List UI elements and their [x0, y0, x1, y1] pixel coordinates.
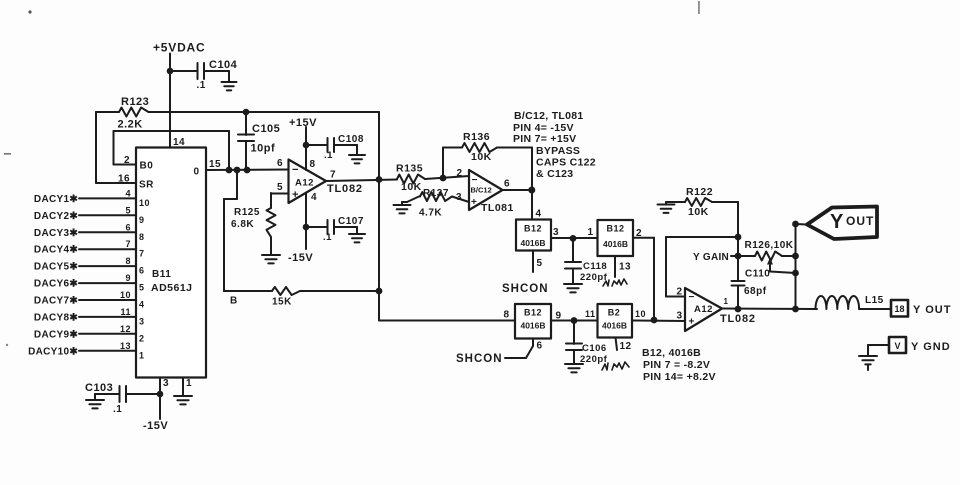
svg-text:Y: Y	[830, 211, 844, 233]
svg-text:4.7K: 4.7K	[419, 208, 442, 219]
svg-text:3: 3	[456, 192, 462, 203]
svg-text:DACY10✱: DACY10✱	[28, 346, 78, 357]
svg-text:10: 10	[635, 309, 646, 319]
svg-text:+15V: +15V	[289, 117, 317, 129]
svg-text:.1: .1	[197, 80, 206, 91]
svg-text:Y OUT: Y OUT	[913, 304, 951, 316]
svg-text:OUT: OUT	[846, 214, 874, 228]
svg-text:9: 9	[125, 273, 131, 283]
svg-text:-15V: -15V	[143, 420, 168, 432]
svg-text:220pf: 220pf	[580, 272, 608, 283]
svg-text:4: 4	[536, 209, 542, 220]
svg-text:BYPASS: BYPASS	[536, 145, 580, 157]
svg-text:R122: R122	[686, 186, 713, 198]
svg-text:10K: 10K	[688, 206, 709, 218]
svg-text:4016B: 4016B	[520, 321, 545, 331]
svg-text:6: 6	[125, 222, 131, 232]
svg-text:4016B: 4016B	[603, 239, 628, 249]
svg-text:C104: C104	[209, 59, 238, 71]
svg-text:8: 8	[125, 256, 131, 266]
svg-text:DACY5✱: DACY5✱	[34, 262, 78, 273]
svg-text:DACY8✱: DACY8✱	[34, 312, 78, 323]
svg-text:10: 10	[139, 198, 150, 208]
svg-text:7: 7	[330, 170, 336, 181]
svg-text:15: 15	[209, 159, 221, 170]
svg-text:C105: C105	[252, 123, 280, 135]
svg-text:DACY1✱: DACY1✱	[34, 194, 78, 205]
svg-text:B11: B11	[152, 269, 171, 280]
svg-text:SHCON: SHCON	[502, 283, 549, 295]
svg-text:2: 2	[139, 333, 145, 343]
svg-text:6: 6	[537, 341, 543, 352]
svg-text:0: 0	[194, 167, 200, 178]
svg-text:−: −	[689, 292, 695, 303]
svg-text:B/C12, TL081: B/C12, TL081	[514, 110, 584, 122]
svg-text:B12: B12	[606, 224, 624, 234]
svg-text:SR: SR	[139, 180, 154, 191]
svg-text:B0: B0	[140, 161, 154, 172]
svg-text:220pf: 220pf	[580, 354, 608, 365]
svg-text:7: 7	[139, 249, 145, 259]
svg-text:10: 10	[120, 290, 131, 300]
svg-text:1: 1	[186, 378, 192, 389]
svg-text:B/C12: B/C12	[471, 186, 492, 195]
svg-text:−: −	[472, 175, 478, 186]
svg-text:R125: R125	[234, 207, 260, 218]
svg-text:3: 3	[139, 316, 145, 326]
svg-text:4016B: 4016B	[520, 238, 545, 248]
svg-text:2: 2	[677, 287, 683, 298]
svg-text:16: 16	[118, 174, 130, 185]
svg-text:R136: R136	[463, 131, 490, 143]
svg-text:PIN 7= +15V: PIN 7= +15V	[513, 133, 576, 145]
svg-text:1: 1	[139, 350, 145, 360]
svg-text:L15: L15	[865, 295, 884, 306]
svg-text:6: 6	[504, 179, 510, 190]
svg-text:2: 2	[457, 168, 463, 179]
svg-text:8: 8	[504, 310, 510, 321]
svg-text:CAPS C122: CAPS C122	[536, 157, 596, 169]
svg-text:+5VDAC: +5VDAC	[153, 41, 205, 55]
svg-text:−: −	[292, 164, 299, 176]
svg-text:+: +	[471, 197, 477, 208]
svg-text:8: 8	[310, 159, 316, 170]
svg-text:1: 1	[588, 227, 594, 238]
svg-text:15K: 15K	[272, 297, 292, 308]
svg-text:Y GND: Y GND	[911, 341, 951, 353]
svg-text:5: 5	[277, 182, 283, 193]
svg-text:R126,10K: R126,10K	[745, 240, 794, 251]
svg-text:PIN 7 = -8.2V: PIN 7 = -8.2V	[643, 359, 710, 371]
svg-text:DACY9✱: DACY9✱	[34, 329, 78, 340]
svg-text:4016B: 4016B	[602, 321, 627, 331]
svg-text:3: 3	[163, 378, 169, 389]
svg-text:R137: R137	[423, 188, 449, 199]
svg-text:9: 9	[139, 215, 145, 225]
svg-text:DACY6✱: DACY6✱	[34, 279, 78, 290]
svg-text:DACY4✱: DACY4✱	[34, 245, 78, 256]
svg-text:DACY3✱: DACY3✱	[34, 228, 78, 239]
svg-text:TL081: TL081	[481, 202, 514, 214]
svg-text:& C123: & C123	[536, 168, 573, 180]
svg-text:3: 3	[553, 227, 559, 238]
svg-text:C108: C108	[338, 134, 364, 145]
svg-text:8: 8	[139, 232, 145, 242]
svg-text:A12: A12	[694, 304, 713, 315]
svg-text:C103: C103	[85, 382, 113, 394]
svg-text:5: 5	[139, 283, 145, 293]
svg-text:4: 4	[139, 300, 145, 310]
svg-text:TL082: TL082	[720, 313, 756, 325]
svg-text:6: 6	[139, 266, 145, 276]
svg-text:14: 14	[173, 137, 185, 148]
svg-text:+: +	[292, 189, 299, 201]
svg-text:9: 9	[556, 311, 562, 322]
svg-text:.1: .1	[324, 150, 333, 161]
svg-text:-15V: -15V	[288, 252, 313, 264]
svg-text:C107: C107	[338, 216, 364, 227]
svg-text:B12, 4016B: B12, 4016B	[642, 347, 701, 359]
svg-text:12: 12	[620, 341, 632, 352]
svg-text:10K: 10K	[401, 181, 422, 193]
svg-text:5: 5	[537, 258, 543, 269]
svg-text:6: 6	[277, 158, 283, 169]
svg-text:4: 4	[125, 188, 131, 198]
svg-text:18: 18	[894, 304, 904, 314]
svg-text:DACY7✱: DACY7✱	[34, 296, 78, 307]
svg-text:10pf: 10pf	[251, 143, 276, 155]
svg-text:B: B	[230, 296, 238, 307]
svg-text:10K: 10K	[471, 151, 492, 163]
svg-text:2.2K: 2.2K	[118, 119, 143, 131]
svg-text:V: V	[894, 341, 900, 351]
svg-text:11: 11	[585, 309, 596, 319]
svg-text:6.8K: 6.8K	[231, 219, 254, 230]
svg-text:AD561J: AD561J	[151, 282, 193, 294]
svg-text:PIN 14= +8.2V: PIN 14= +8.2V	[643, 371, 716, 383]
svg-text:5: 5	[125, 205, 131, 215]
svg-text:13: 13	[619, 262, 631, 273]
svg-text:.1: .1	[323, 232, 332, 243]
svg-text:B12: B12	[524, 224, 542, 234]
svg-text:A12: A12	[295, 178, 314, 189]
svg-text:SHCON: SHCON	[456, 353, 503, 365]
svg-text:11: 11	[120, 307, 131, 317]
svg-text:B12: B12	[524, 308, 542, 318]
svg-text:68pf: 68pf	[744, 286, 767, 297]
svg-text:.1: .1	[113, 404, 122, 415]
svg-text:2: 2	[636, 228, 642, 239]
svg-text:R123: R123	[121, 96, 149, 108]
svg-text:B2: B2	[608, 308, 621, 318]
svg-text:TL082: TL082	[327, 183, 363, 195]
svg-text:Y GAIN: Y GAIN	[693, 252, 729, 263]
svg-text:C118: C118	[583, 261, 607, 272]
svg-text:2: 2	[124, 155, 130, 166]
svg-text:R135: R135	[396, 163, 423, 175]
svg-text:12: 12	[120, 324, 131, 334]
svg-text:13: 13	[120, 341, 131, 351]
svg-text:1: 1	[724, 297, 729, 306]
svg-text:3: 3	[677, 311, 683, 322]
svg-text:DACY2✱: DACY2✱	[34, 211, 78, 222]
svg-text:C110: C110	[745, 269, 770, 280]
svg-text:4: 4	[311, 192, 317, 203]
svg-text:7: 7	[125, 239, 131, 249]
svg-text:+: +	[689, 317, 695, 328]
svg-text:C106: C106	[582, 343, 607, 354]
